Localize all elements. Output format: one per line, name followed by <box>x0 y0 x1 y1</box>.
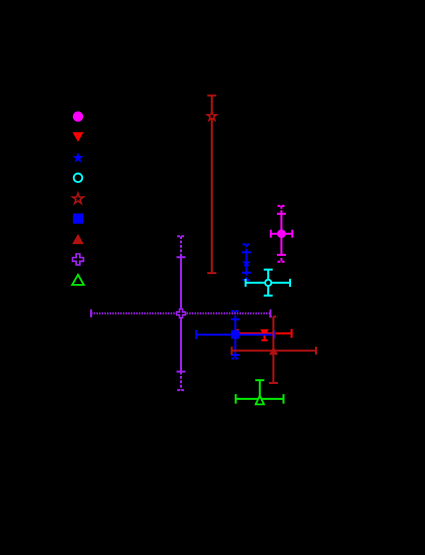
legend marker dark red open star <box>73 193 84 203</box>
dark red triangle dataset error bars <box>232 317 316 383</box>
legend marker violet open plus <box>73 254 84 265</box>
blue square dataset error bars <box>196 311 275 359</box>
red dataset error bars <box>238 329 292 340</box>
legend marker cyan open circle <box>74 174 83 183</box>
legend marker dark red filled triangle <box>72 234 84 244</box>
legend marker blue filled square <box>73 214 83 224</box>
green dataset error bars <box>236 380 284 404</box>
violet open plus marker <box>177 309 186 318</box>
magenta filled circle marker <box>277 229 286 238</box>
dark red open star marker <box>207 111 216 120</box>
dark red star dataset error bar <box>207 96 216 274</box>
legend marker red filled inverted triangle <box>72 132 83 142</box>
legend marker blue filled star <box>72 152 83 163</box>
green open triangle marker <box>256 396 264 405</box>
red filled inverted triangle marker <box>260 329 269 336</box>
blue filled square marker <box>231 330 240 339</box>
dark red filled triangle marker <box>269 347 278 355</box>
magenta dataset error bars <box>271 206 293 262</box>
violet dataset error bars <box>91 236 270 390</box>
legend marker green open triangle <box>72 275 84 285</box>
legend marker magenta filled circle <box>73 111 83 121</box>
blue filled star marker <box>242 258 251 267</box>
cyan open circle marker <box>265 280 271 286</box>
cyan dataset error bars <box>246 270 291 296</box>
blue star dataset error bars <box>242 244 251 280</box>
